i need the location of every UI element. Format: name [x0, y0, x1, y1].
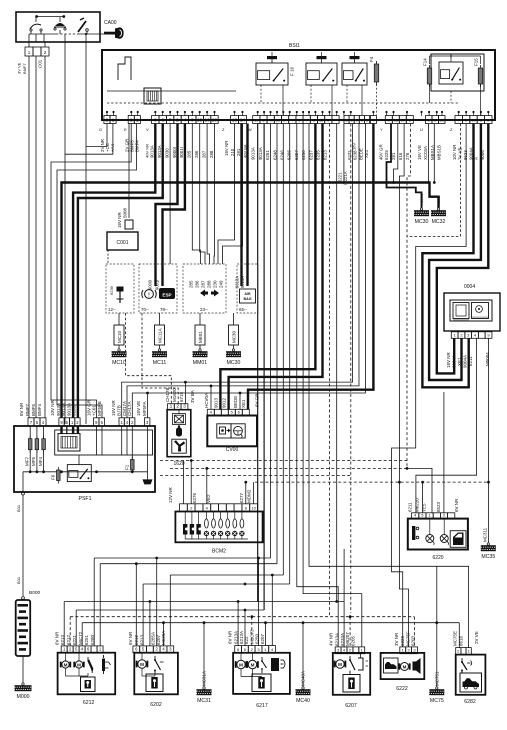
svg-text:3V BA: 3V BA [190, 390, 195, 403]
PSF1 fuse bottoms to bus [30, 450, 43, 472]
svg-text:CV00: CV00 [226, 447, 239, 453]
BSI1 pin group 8 (7,9,10,6,8) [455, 116, 492, 124]
svg-text:9004A: 9004A [463, 355, 468, 368]
svg-text:MC75: MC75 [430, 698, 444, 704]
PSF1 left internal wire to B01 [22, 472, 24, 492]
svg-text:MC10: MC10 [117, 330, 122, 343]
BSI1 pin 4 (thick feed) [370, 116, 376, 124]
svg-text:65--: 65-- [239, 307, 247, 312]
battery B000 [16, 600, 31, 656]
svg-text:M: M [64, 662, 68, 667]
svg-text:2: 2 [176, 404, 179, 410]
svg-text:7: 7 [169, 118, 172, 124]
wire 0004 pin9 M0004 to ground MC35 [487, 338, 490, 543]
svg-text:9000I: 9000I [148, 280, 153, 290]
svg-text:9030: 9030 [164, 148, 169, 158]
BSI1 relay 1 [256, 56, 295, 115]
svg-text:MC32: MC32 [436, 196, 441, 206]
svg-text:13: 13 [319, 118, 324, 123]
thick wire 9001I (BSI to cluster) [163, 124, 185, 287]
svg-text:16V NR: 16V NR [117, 211, 122, 228]
svg-text:622: 622 [244, 636, 249, 644]
svg-text:6246: 6246 [280, 150, 285, 160]
wire 281 (BSI to PSF1 pin2) [132, 124, 365, 419]
6220 lamp 2 [440, 535, 448, 545]
fuse MF7 in PSF1 [25, 436, 33, 466]
svg-text:CM17A: CM17A [122, 401, 127, 416]
svg-text:285: 285 [187, 150, 192, 158]
6212 motor 2 [73, 661, 84, 668]
svg-text:BJ7B: BJ7B [117, 405, 122, 416]
labels under BSI pin group 1 [100, 139, 115, 152]
bus y575 drops [170, 575, 272, 646]
svg-text:MC311: MC311 [483, 527, 488, 542]
module 6212 box [58, 653, 116, 695]
thick wire to CV00 pin 6 [248, 124, 373, 410]
svg-text:5008: 5008 [123, 207, 128, 218]
svg-text:9001I: 9001I [155, 280, 160, 290]
thick wire 9013A c (PSF1 to ground MC32) [62, 183, 439, 419]
module 6220 label [432, 555, 443, 561]
svg-text:XE1: XE1 [241, 399, 246, 408]
wire 6205 (bundle 4) to bus y563.7 [276, 124, 278, 564]
module 6202 box [134, 653, 178, 695]
wire 9030 [169, 124, 171, 265]
ground MC32 [431, 196, 446, 225]
wire cluster to ground MM01 [199, 313, 201, 325]
BSI1 internal horizontal wire [107, 90, 236, 92]
svg-text:MC10: MC10 [112, 360, 126, 366]
svg-text:MF5: MF5 [31, 457, 36, 466]
dashed wire bus y482.1 [255, 481, 488, 513]
svg-text:1: 1 [28, 50, 31, 55]
BSI1 control unit label [289, 43, 300, 49]
wire 6250 (bundle 6) to bus y584 [289, 124, 291, 585]
wire staircase 4 [57, 124, 137, 419]
svg-text:23--: 23-- [200, 307, 208, 312]
svg-text:6250: 6250 [301, 150, 306, 160]
svg-text:9013A: 9013A [251, 147, 256, 160]
label 40V BA [243, 144, 248, 158]
svg-text:6285A: 6285A [151, 632, 156, 645]
BSI1 relay sub-box [431, 54, 484, 91]
svg-text:2: 2 [176, 118, 179, 124]
wire YE5 (to 6220 pin1) [407, 468, 432, 513]
wire staircase 2 [65, 34, 113, 424]
cluster pin labels 70 78 [141, 307, 168, 312]
svg-text:6202: 6202 [150, 702, 162, 708]
svg-text:+C01: +C01 [92, 405, 97, 416]
fuse MF5 in PSF1 [31, 436, 38, 466]
svg-text:BCM2: BCM2 [212, 549, 226, 555]
wire XC03A stub [427, 124, 430, 184]
labels under BSI pin group 5 [251, 147, 328, 160]
6202 internal stubs [142, 653, 155, 676]
svg-text:MDM2: MDM2 [247, 489, 252, 503]
svg-text:8523: 8523 [436, 501, 441, 512]
ground MC30 [414, 193, 429, 225]
svg-text:B01: B01 [16, 504, 21, 512]
module 6207 box [333, 653, 370, 695]
wire stub x344 [343, 549, 345, 602]
wire BMF4 (ignition to PSF1 pin4) [44, 56, 46, 418]
svg-text:6207: 6207 [345, 703, 357, 709]
bus y558 drops [94, 558, 258, 646]
6282 car sub-box [460, 673, 482, 692]
cluster pin label 65 [239, 307, 247, 312]
svg-text:6211: 6211 [408, 502, 413, 512]
svg-text:2V VE: 2V VE [474, 631, 479, 644]
svg-text:6213: 6213 [139, 634, 144, 645]
svg-text:6V GR: 6V GR [255, 393, 260, 407]
svg-text:MC30: MC30 [227, 360, 241, 366]
svg-text:14: 14 [240, 118, 246, 124]
ignition switch contact 3 [78, 18, 88, 34]
labels 6282 wires [453, 631, 480, 646]
module 6222 pin row [400, 647, 418, 654]
svg-text:MF5FB: MF5FB [97, 401, 102, 416]
BCM2 relay contacts [183, 512, 201, 540]
svg-text:0004: 0004 [464, 284, 475, 290]
svg-text:10V NR: 10V NR [50, 399, 55, 416]
cluster icon 12 (diagnostic) [117, 287, 124, 304]
svg-text:V: V [146, 127, 149, 132]
dashed wire 10V NR (BSI pin7) [407, 124, 460, 237]
svg-text:6V NR: 6V NR [55, 631, 60, 645]
svg-text:6220: 6220 [432, 555, 443, 561]
svg-text:M: M [251, 662, 255, 667]
labels under BSI pin group 6 [379, 144, 410, 160]
module 6282 pin row [456, 648, 472, 655]
6217 internal stubs [241, 653, 262, 677]
svg-text:MC32: MC32 [432, 219, 446, 225]
module 6222 label [396, 686, 408, 692]
wire to ground MC75 [436, 566, 438, 687]
PSF1 inner box [55, 430, 153, 455]
6212 internal stubs [66, 653, 89, 676]
cluster brake warning icon [142, 290, 157, 299]
thick wire 9013A a (BSI to PSF1) [73, 124, 155, 419]
cluster box 70-78 (dashed) [139, 264, 177, 313]
svg-text:MC75F: MC75F [405, 631, 410, 646]
ground MC40 [296, 671, 311, 704]
svg-text:78--: 78-- [160, 307, 168, 312]
wire via x343 [343, 124, 345, 185]
svg-text:9: 9 [191, 118, 194, 124]
battery B000 terminal [22, 597, 25, 600]
module 0004 pin row [451, 332, 492, 339]
dashed wire CM17B to 1620 pin1 [126, 313, 172, 404]
BSI1 internal wires to relays [272, 52, 481, 115]
svg-text:16V NR: 16V NR [111, 399, 116, 416]
BSI1 pin group 5b [344, 116, 370, 124]
svg-text:BSI1: BSI1 [289, 43, 300, 49]
svg-text:9013A: 9013A [157, 145, 162, 158]
svg-text:1: 1 [170, 404, 173, 410]
PSF1 internal bus [23, 470, 148, 473]
bus y584 [143, 583, 290, 586]
6220 door icon [450, 531, 466, 548]
svg-text:19: 19 [197, 118, 203, 124]
svg-text:19: 19 [254, 118, 259, 123]
module 1620 pin row [168, 404, 188, 410]
PSF1 pin row group 7,5,4 [28, 418, 46, 426]
svg-text:34: 34 [283, 118, 288, 123]
svg-text:287: 287 [201, 150, 206, 158]
wire from ignition box to C01 pin1 [28, 34, 30, 47]
wire battery to ground M000 [22, 656, 24, 683]
svg-text:9001I: 9001I [179, 147, 184, 158]
ground MC75 [429, 671, 444, 704]
thick wire 9013A b (BSI to PSF1) [78, 124, 163, 419]
cluster direction indicator icon [200, 290, 219, 297]
svg-text:9013A: 9013A [150, 145, 155, 158]
wire staircase 1 (BSI pin to left column) [86, 34, 107, 424]
svg-text:BMF4: BMF4 [37, 404, 42, 416]
cluster box 23 (dashed) [183, 264, 226, 313]
svg-text:AIR: AIR [244, 292, 251, 296]
wire BMF7 (C01 pin1 to PSF1 pin7) [28, 56, 30, 418]
labels 6207 wires [329, 632, 356, 646]
svg-text:MF7: MF7 [25, 457, 30, 466]
module 6222 box [381, 653, 425, 679]
ignition switch contact 1 [30, 17, 42, 34]
module 6207 label [345, 703, 357, 709]
module CV00 box [207, 416, 257, 447]
thick wire BSI to 0004 pin2 [429, 124, 481, 381]
svg-text:9013: 9013 [214, 397, 219, 408]
BSI1 pin group 2 (pins 2,1) [128, 116, 140, 124]
PSF1 pin row group 1,4,2 [119, 418, 135, 426]
svg-text:16: 16 [394, 118, 399, 123]
wire 6237 (bundle 7) to 6207 box [297, 124, 338, 648]
dashed wire 6238 [350, 124, 352, 614]
PSF1 internal ground symbol [143, 479, 153, 484]
wire 6246 (bundle 3) to bus y558 [270, 124, 272, 559]
svg-text:6217: 6217 [256, 703, 268, 709]
BSI1 control unit box [102, 50, 495, 120]
svg-text:1: 1 [136, 118, 139, 124]
6202 motor [136, 660, 149, 668]
PSF1 wires fuse tops [30, 426, 43, 439]
svg-text:U: U [420, 127, 423, 132]
svg-text:6251: 6251 [84, 634, 89, 645]
svg-text:6222: 6222 [396, 686, 408, 692]
wire 8523 (to 6220 pin2) [443, 392, 445, 513]
wire 6281 (BSI to 6222 pin2) [398, 124, 409, 648]
svg-text:BEDE: BEDE [233, 396, 238, 408]
module 1620 vent icon [172, 439, 187, 453]
svg-text:6213: 6213 [60, 634, 65, 645]
svg-text:XC03A: XC03A [423, 146, 428, 160]
wire B01 battery positive [16, 495, 23, 596]
svg-text:6719: 6719 [179, 391, 184, 402]
ground MM01 [193, 325, 208, 366]
BSI1 pin group 1 (pins 2,1) [104, 116, 116, 124]
svg-text:2: 2 [106, 118, 109, 124]
svg-text:16V VE: 16V VE [136, 401, 141, 416]
BSI1 relay 3 [342, 56, 367, 115]
svg-text:F4: F4 [369, 56, 374, 62]
svg-text:6203: 6203 [411, 635, 416, 646]
svg-text:286: 286 [195, 280, 200, 288]
wires 285,286,287,288 (BSI to cluster) [192, 124, 214, 265]
module 1620 label [173, 461, 184, 467]
cluster airbag icon [240, 289, 256, 303]
svg-text:9013A: 9013A [234, 276, 239, 288]
BSI1 internal connector (hatched) [144, 88, 161, 104]
6202 lock sub-box [146, 674, 163, 692]
svg-text:MIC72: MIC72 [78, 631, 83, 645]
PSF1 pin row group 9,5 [94, 418, 105, 426]
6222 motor [398, 663, 410, 671]
module 1620 box [167, 410, 191, 457]
svg-text:MC40A: MC40A [301, 671, 306, 686]
svg-text:13: 13 [232, 118, 238, 124]
6212 motor 1 [60, 661, 71, 668]
BCM2 internal bus [185, 538, 248, 540]
svg-text:6213A: 6213A [239, 631, 244, 644]
module 0004 inner [450, 300, 492, 321]
6212 lock sub-box [81, 677, 96, 692]
svg-text:XE1: XE1 [364, 149, 369, 158]
key switch CA00 label [104, 20, 117, 26]
module BCM2 box [175, 512, 262, 543]
cluster pin label 12 [108, 307, 116, 312]
ignition switch unit box [16, 12, 100, 42]
relay in PSF1 [67, 455, 91, 482]
6222 speaker icon [413, 658, 421, 674]
svg-text:249: 249 [219, 280, 224, 288]
svg-text:9000I: 9000I [172, 147, 177, 158]
module 6212 pin row [61, 646, 103, 653]
PSF1 pin row group 3 [144, 418, 150, 426]
wire MBS1A stub [433, 124, 436, 184]
wire BMF5 (C01 pin2 to PSF1 pin5) [35, 56, 37, 418]
dashed wire bus y475.6 [160, 475, 351, 477]
svg-text:1: 1 [112, 118, 115, 124]
labels 1620 wires [165, 387, 195, 403]
thick wire to ground MC30 [387, 124, 422, 209]
svg-text:M1620: M1620 [172, 388, 177, 402]
svg-text:6238: 6238 [353, 150, 358, 160]
module CV00 lock icon [217, 424, 231, 438]
svg-text:6205: 6205 [350, 635, 355, 646]
6282 switch [461, 658, 472, 673]
dashed wire M1620 to 1620 pin2 [142, 313, 178, 404]
BSI1 pin junction dots [106, 111, 490, 116]
svg-text:10: 10 [204, 118, 210, 124]
labels above PSF1 pins 1,4,2 [111, 399, 132, 416]
label 3V VE / BMF7 [17, 62, 28, 74]
dashed bus drops [70, 617, 414, 648]
labels under BSI pin group 7 [417, 145, 442, 160]
label 6239 [109, 285, 114, 295]
svg-text:6221.: 6221. [338, 171, 343, 182]
BSI1 pin group 5 [253, 116, 339, 124]
connector 5008 [117, 207, 133, 229]
labels 9000I 9001I in cluster [148, 280, 160, 290]
dashed wire bus y460.5 [160, 460, 407, 462]
BSI1 pin group 6 (2,16,17,5) [385, 116, 413, 124]
wire 276 (BSI to PSF1 pin4) [127, 124, 359, 419]
svg-text:9004A: 9004A [452, 355, 457, 368]
svg-text:6: 6 [161, 118, 164, 124]
BSI1 relay 2 [306, 56, 337, 115]
PSF1 pin stubs into inner box [62, 426, 148, 460]
svg-text:3V NR: 3V NR [394, 632, 399, 646]
svg-text:F 16: F 16 [290, 66, 295, 76]
cluster labels 285-249 [189, 280, 224, 288]
svg-text:12--: 12-- [108, 307, 116, 312]
svg-text:6277: 6277 [239, 492, 244, 503]
module CV00 pin row [207, 409, 249, 415]
svg-text:10V NR: 10V NR [452, 145, 457, 160]
wire MC31A [203, 623, 205, 687]
label 16V NR group4 [224, 141, 241, 156]
module 0004 label [464, 284, 475, 290]
ignition switch internal top bus [35, 15, 65, 18]
BSI1 pin group 7 (3,6,10) [426, 116, 446, 124]
svg-text:M0004: M0004 [485, 352, 490, 366]
svg-text:HCV0A: HCV0A [204, 393, 209, 408]
svg-text:M620A: M620A [161, 631, 166, 645]
svg-text:F15: F15 [474, 58, 479, 66]
svg-text:70--: 70-- [141, 307, 149, 312]
svg-text:MC30: MC30 [231, 330, 236, 343]
svg-text:6V NR: 6V NR [454, 498, 459, 512]
svg-text:M: M [239, 662, 243, 667]
module BCM2 pin row [180, 504, 258, 512]
labels above PSF1 pin 3 [136, 401, 147, 416]
wire 6225 [392, 124, 398, 184]
svg-text:MC75E: MC75E [453, 631, 458, 646]
wire HCV0A to CV00 pin4 [210, 385, 213, 410]
svg-text:8616: 8616 [459, 635, 464, 646]
svg-text:17: 17 [401, 118, 406, 123]
module 6217 pin row [235, 646, 276, 653]
BCM2 fuse-lamp units [204, 512, 245, 540]
thick wire BSI to 0004 pin3 [422, 124, 473, 388]
6217 relay icon [271, 658, 285, 671]
svg-text:BMF7: BMF7 [25, 404, 30, 416]
labels under BSI pin group 2 [124, 139, 139, 152]
svg-text:6239: 6239 [109, 285, 114, 295]
svg-text:10: 10 [471, 118, 476, 123]
svg-text:18V NR: 18V NR [446, 351, 451, 368]
ground MC10 [112, 325, 127, 366]
svg-text:6212: 6212 [83, 700, 95, 706]
connector C01 label [38, 59, 43, 68]
6207 contact [358, 654, 368, 670]
svg-text:F14: F14 [423, 58, 428, 66]
BSI1 internal step polyline [118, 57, 131, 80]
svg-text:BMF5: BMF5 [31, 404, 36, 416]
svg-text:M6207: M6207 [345, 632, 350, 646]
svg-text:6: 6 [154, 118, 157, 124]
ground MC30 [226, 325, 241, 366]
BSI connector letters [99, 127, 453, 132]
labels above PSF1 pins 7,5,4 [19, 402, 42, 416]
wire 281 (BSI pin14 to cluster) [223, 124, 243, 265]
svg-text:16V NR: 16V NR [224, 141, 229, 156]
wire 6221 [335, 124, 338, 603]
ground MC31 [197, 671, 212, 704]
PSF1 label [79, 496, 92, 502]
labels CV00 wires [204, 393, 259, 408]
svg-text:B01: B01 [16, 576, 21, 584]
6202 switch [154, 656, 164, 674]
